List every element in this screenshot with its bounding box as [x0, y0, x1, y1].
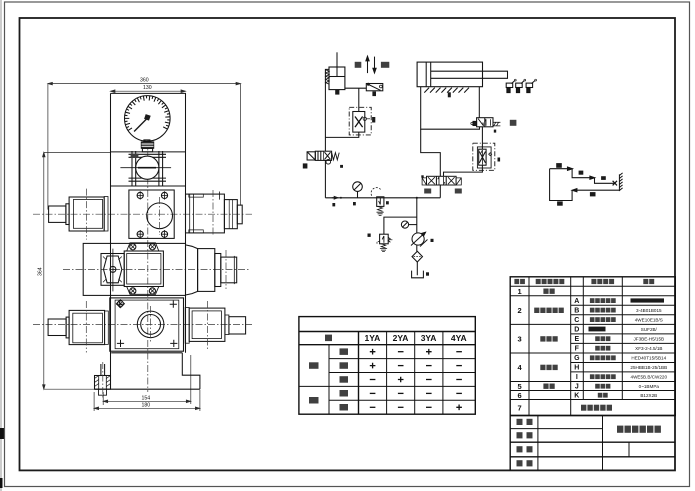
svg-text:360: 360	[140, 78, 149, 84]
wire: speed valve2 out	[444, 165, 483, 176]
svg-text:5: 5	[518, 382, 522, 391]
row4 hex plug left	[101, 249, 124, 292]
wire: column lines	[328, 345, 330, 415]
svg-text:7: 7	[518, 403, 522, 412]
section line 2	[111, 185, 186, 187]
label reducing valve	[368, 234, 371, 237]
label 3A	[510, 120, 517, 126]
wire: row lines	[329, 358, 475, 360]
wire: branch to reducing valve	[384, 217, 417, 234]
label 2YA	[455, 189, 462, 194]
svg-text:364: 364	[38, 267, 44, 276]
row5 plate	[110, 298, 184, 351]
drawing title	[617, 426, 661, 433]
wire filter to tank	[416, 262, 418, 275]
gauge stem fittings	[144, 140, 150, 142]
row3 left cartridge	[49, 189, 108, 240]
dimension 130	[111, 90, 186, 93]
horizontals full	[510, 285, 675, 287]
pressure gauge 2	[401, 221, 416, 228]
wire: speed valve1 out to rail	[325, 132, 358, 137]
row5 right cartridge	[185, 301, 245, 350]
svg-text:4WE10E1B/S: 4WE10E1B/S	[635, 317, 663, 322]
cycle labels	[556, 163, 562, 168]
row2 corner bolt blob	[131, 154, 139, 158]
pressure switch	[366, 83, 383, 91]
dimension 364	[43, 152, 111, 389]
centerline row3	[33, 213, 252, 215]
row4 right step blocks	[186, 245, 237, 295]
sub row lines	[571, 304, 676, 306]
limit switch 1	[506, 79, 516, 92]
row label blobs	[340, 348, 349, 355]
label speed valve2	[498, 158, 501, 162]
dimension 360	[48, 82, 241, 209]
label under 3A valve	[494, 130, 496, 133]
verticals	[528, 277, 530, 416]
wire: left port to 4way valve	[421, 129, 441, 176]
wire: 4way bottom to P	[439, 185, 441, 198]
label left of 2/2 valve	[303, 163, 308, 168]
wire: T down to speed valve 1	[358, 88, 360, 111]
svg-text:0~1BMPa: 0~1BMPa	[639, 384, 660, 389]
group label blobs	[309, 362, 319, 369]
svg-text:2: 2	[518, 306, 522, 315]
wire: header bottom line	[299, 344, 475, 346]
row3 right cartridge	[186, 190, 243, 236]
row2 valve flange	[120, 151, 171, 186]
label relief2	[386, 201, 389, 204]
row5 left cartridge	[48, 301, 108, 353]
svg-text:I: I	[576, 374, 578, 381]
wire: relief to pressure switch	[345, 87, 366, 89]
pressure gauge 1	[353, 182, 363, 198]
wire pump to filter	[416, 245, 418, 251]
svg-text:154: 154	[142, 395, 151, 401]
scan edge artifacts	[0, 0, 2, 491]
pump	[411, 232, 428, 246]
label under arrow	[332, 203, 335, 206]
relief valve 2 on P line	[371, 188, 384, 216]
wire: cyl right port down	[478, 87, 480, 118]
base step right	[182, 353, 200, 389]
svg-text:E: E	[574, 336, 579, 343]
wire: main P line	[325, 197, 440, 199]
wire: cyl left port down	[421, 87, 480, 130]
svg-text:K: K	[574, 393, 579, 400]
limit switch 3	[526, 79, 536, 92]
svg-text:D: D	[574, 327, 579, 334]
labels	[517, 419, 523, 425]
svg-text:180: 180	[142, 403, 151, 409]
reducing valve	[377, 234, 392, 251]
svg-text:XF3-2-4.5/1B: XF3-2-4.5/1B	[635, 346, 662, 351]
svg-text:G: G	[574, 355, 580, 362]
label kuaitui	[381, 62, 389, 68]
label pump	[431, 239, 434, 242]
label 1YA	[424, 189, 431, 194]
svg-text:6: 6	[518, 391, 522, 400]
dimension 154	[103, 355, 191, 405]
svg-text:130: 130	[143, 85, 152, 91]
label cylinder	[448, 92, 451, 97]
centerline row4	[63, 268, 250, 270]
svg-text:2YA: 2YA	[393, 333, 409, 343]
table frame	[299, 317, 475, 415]
wire: left rail upper	[325, 69, 329, 151]
section line 3 / row4 wide block	[83, 243, 185, 295]
svg-text:3-4B01B015: 3-4B01B015	[636, 308, 662, 313]
svg-text:4WE5B.B/CW220: 4WE5B.B/CW220	[631, 375, 668, 380]
svg-text:1YA: 1YA	[365, 333, 381, 343]
svg-text:JF3BE-H5/15B: JF3BE-H5/15B	[633, 337, 664, 342]
dimension 180	[94, 390, 200, 411]
svg-text:HED40T15/5B14: HED40T15/5B14	[631, 356, 666, 361]
svg-text:3: 3	[518, 335, 522, 344]
label under relief valve	[335, 90, 339, 95]
travel valve 3A	[471, 118, 501, 127]
row4 center block	[124, 243, 163, 294]
label under pressure switch	[372, 92, 376, 97]
speed control valve 2	[473, 143, 495, 170]
label top-left of 4way	[421, 175, 423, 177]
relief valve (pilot unloading)	[326, 52, 345, 89]
svg-text:B12X2B: B12X2B	[640, 393, 657, 398]
svg-text:3YA: 3YA	[421, 333, 437, 343]
wire: header top line	[299, 331, 475, 333]
wire: left rail lower	[324, 160, 326, 197]
4-way solenoid valve	[422, 176, 461, 185]
cylinder	[417, 62, 507, 87]
svg-text:4YA: 4YA	[451, 333, 467, 343]
solenoid 2/2 unloading valve on rail	[307, 151, 339, 164]
pressure gauge	[125, 96, 171, 142]
tank	[412, 271, 424, 278]
header label blob	[325, 335, 332, 342]
wire: down from P line to pump	[416, 198, 418, 233]
section line 1	[111, 151, 186, 153]
centerline row5	[33, 324, 252, 326]
wire: 3A valve to speed valve2	[481, 127, 483, 149]
bottom plug	[95, 362, 111, 399]
label right of 2/2 valve	[340, 165, 343, 168]
cycle step diagram	[550, 167, 623, 200]
speed control valve 1	[349, 107, 371, 135]
svg-text:B: B	[574, 308, 579, 315]
base bottom line	[95, 388, 200, 390]
label tank	[426, 272, 429, 275]
svg-text:F: F	[575, 346, 580, 353]
svg-text:H: H	[574, 365, 579, 372]
label kuaijin	[355, 62, 362, 68]
flow arrow on P line	[332, 197, 338, 199]
cylinder mount hatching	[424, 88, 469, 93]
svg-text:1: 1	[518, 287, 522, 296]
main column outline	[111, 93, 186, 389]
svg-text:C: C	[574, 317, 579, 324]
limit switch 2	[516, 79, 526, 92]
vertical centerline of column	[147, 140, 149, 392]
label speed valve1	[372, 117, 375, 123]
svg-text:25HBB1B-25/1BB: 25HBB1B-25/1BB	[630, 365, 667, 370]
filter	[412, 251, 423, 262]
row3 plate	[129, 190, 174, 238]
section line 5	[111, 352, 182, 354]
arrows fast fwd / fast back	[366, 56, 376, 73]
svg-text:SUF2B/: SUF2B/	[641, 327, 658, 332]
svg-text:A: A	[574, 298, 579, 305]
plus/minus marks	[370, 349, 462, 410]
svg-text:J: J	[575, 384, 579, 391]
label under gauge1	[353, 202, 356, 205]
